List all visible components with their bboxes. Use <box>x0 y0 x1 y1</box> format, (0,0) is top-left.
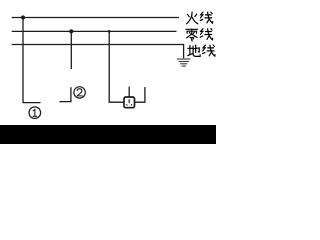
wire: drop from neutral <box>70 31 72 69</box>
wire: earth bus 地线 with drop to ground <box>12 45 184 59</box>
wire: terminal 2 stub (L-shape) <box>59 87 71 101</box>
terminal marker 1 <box>29 107 41 119</box>
junction dot at socket branch on neutral bus <box>108 30 111 33</box>
label 火线 (live) <box>187 12 213 24</box>
black letterbox bar at bottom <box>0 125 216 144</box>
socket X1 (three-pin outlet) <box>124 97 135 108</box>
ground symbol <box>177 59 190 66</box>
wire: socket earth stub <box>128 87 130 97</box>
wire: socket right lead <box>135 87 145 102</box>
junction dot on neutral bus <box>69 29 73 33</box>
label 地线 (earth) <box>188 45 215 56</box>
label 零线 (neutral) <box>186 29 213 41</box>
wire: drop from live to terminal 1 (L-shape) <box>23 18 41 103</box>
terminal marker 2 <box>74 87 85 98</box>
wire: neutral bus 零线 <box>12 30 177 32</box>
wire: live bus 火线 <box>12 17 179 19</box>
wire: neutral drop to socket left lead <box>109 31 123 102</box>
junction dot on live bus <box>21 15 25 19</box>
